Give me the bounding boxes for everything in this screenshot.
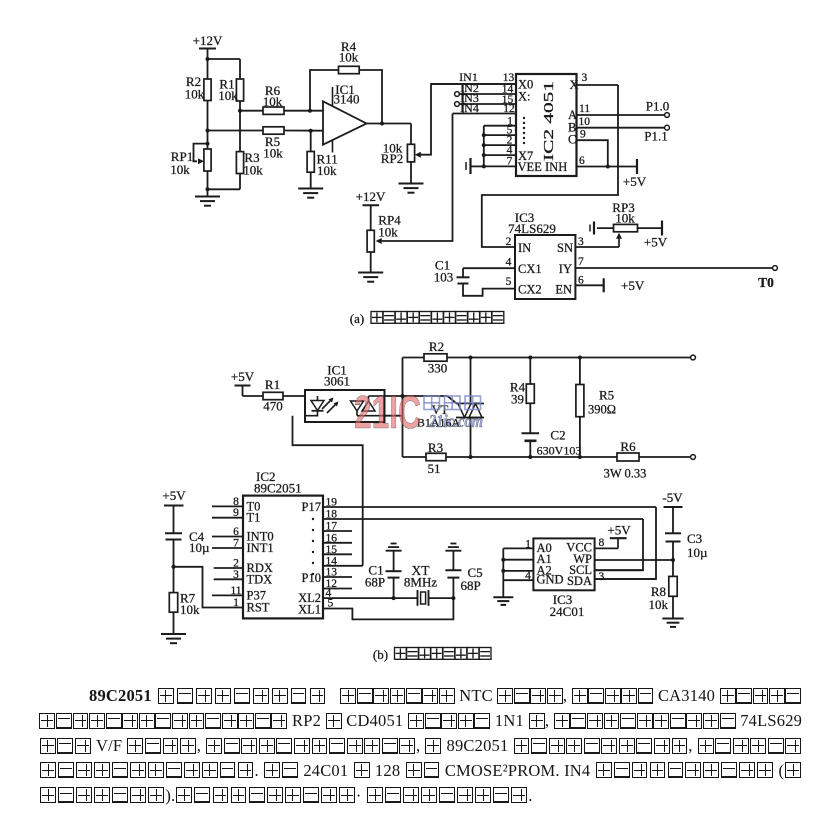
svg-text:P1.0: P1.0 bbox=[646, 99, 669, 114]
svg-text:16: 16 bbox=[326, 532, 338, 544]
svg-text:1: 1 bbox=[525, 538, 531, 550]
svg-text:10k: 10k bbox=[185, 87, 205, 102]
svg-text:74LS629: 74LS629 bbox=[508, 221, 556, 236]
svg-text:TDX: TDX bbox=[247, 572, 273, 586]
svg-text:VEE: VEE bbox=[518, 160, 543, 174]
svg-text:3W 0.33: 3W 0.33 bbox=[604, 467, 647, 481]
svg-text:11: 11 bbox=[579, 103, 590, 115]
svg-text:68P: 68P bbox=[365, 575, 385, 590]
svg-text:INT1: INT1 bbox=[247, 541, 274, 555]
svg-text:+5V: +5V bbox=[231, 369, 255, 384]
svg-text:C: C bbox=[568, 133, 576, 147]
svg-text:CX2: CX2 bbox=[518, 283, 542, 297]
svg-text:SDA: SDA bbox=[567, 574, 592, 588]
svg-text:7: 7 bbox=[507, 156, 513, 168]
svg-text:2: 2 bbox=[506, 236, 512, 248]
svg-text:3061: 3061 bbox=[324, 374, 350, 389]
svg-text:103: 103 bbox=[434, 270, 454, 285]
svg-text:24C01: 24C01 bbox=[550, 604, 585, 619]
svg-text:17: 17 bbox=[326, 521, 338, 533]
svg-text:RP2: RP2 bbox=[381, 151, 403, 166]
svg-text:GND: GND bbox=[537, 573, 564, 587]
svg-text:3140: 3140 bbox=[334, 92, 360, 107]
svg-text:10: 10 bbox=[579, 116, 591, 128]
svg-text:10µ: 10µ bbox=[687, 545, 708, 560]
svg-text:R2: R2 bbox=[429, 339, 444, 354]
svg-text:3: 3 bbox=[582, 72, 588, 84]
svg-text:3: 3 bbox=[599, 571, 605, 583]
svg-text:IY: IY bbox=[559, 262, 572, 276]
svg-text:15: 15 bbox=[326, 544, 338, 556]
svg-text:X:: X: bbox=[518, 90, 531, 104]
svg-text:8MHz: 8MHz bbox=[404, 575, 437, 590]
svg-text:10k: 10k bbox=[218, 88, 238, 103]
svg-text:P17: P17 bbox=[302, 500, 321, 514]
svg-text:+5V: +5V bbox=[607, 523, 631, 538]
svg-text:XL1: XL1 bbox=[298, 603, 321, 617]
svg-text:R3: R3 bbox=[428, 440, 443, 455]
svg-text:R1: R1 bbox=[265, 377, 280, 392]
svg-text:8: 8 bbox=[233, 496, 239, 508]
svg-text:EN: EN bbox=[555, 283, 572, 297]
svg-text:68P: 68P bbox=[461, 578, 481, 593]
svg-text:7: 7 bbox=[233, 538, 239, 550]
svg-text:11: 11 bbox=[230, 585, 241, 597]
svg-text:470: 470 bbox=[263, 399, 283, 414]
svg-text:IN: IN bbox=[518, 241, 531, 255]
svg-text:10k: 10k bbox=[243, 163, 263, 178]
svg-text:89C2051: 89C2051 bbox=[254, 481, 302, 496]
svg-text:4: 4 bbox=[506, 257, 512, 269]
svg-text:T1: T1 bbox=[247, 511, 261, 525]
svg-text:10µ: 10µ bbox=[189, 540, 210, 555]
svg-text:+5V: +5V bbox=[623, 174, 647, 189]
svg-text:+5V: +5V bbox=[644, 235, 668, 250]
svg-text:R5: R5 bbox=[599, 388, 614, 403]
svg-text:6: 6 bbox=[233, 526, 239, 538]
svg-text:5: 5 bbox=[328, 598, 334, 610]
svg-text:IN4: IN4 bbox=[460, 101, 479, 115]
svg-text:R6: R6 bbox=[620, 439, 636, 454]
svg-text:P1.1: P1.1 bbox=[644, 129, 667, 144]
svg-text:390Ω: 390Ω bbox=[588, 403, 616, 417]
svg-text:10k: 10k bbox=[170, 162, 190, 177]
svg-text:2: 2 bbox=[233, 558, 239, 570]
svg-text:+12V: +12V bbox=[193, 33, 223, 48]
svg-text:RST: RST bbox=[247, 601, 270, 615]
svg-text:51: 51 bbox=[428, 461, 441, 476]
svg-text:9: 9 bbox=[233, 507, 239, 519]
svg-text:10k: 10k bbox=[649, 597, 669, 612]
svg-text:7: 7 bbox=[578, 256, 584, 268]
svg-text:P10: P10 bbox=[302, 571, 321, 585]
svg-text:19: 19 bbox=[326, 497, 338, 509]
svg-text:T0: T0 bbox=[758, 275, 774, 290]
svg-text:10k: 10k bbox=[263, 146, 283, 161]
svg-text:10k: 10k bbox=[263, 94, 283, 109]
svg-text:21ic.com: 21ic.com bbox=[428, 411, 483, 431]
svg-text:5: 5 bbox=[506, 276, 512, 288]
svg-text:18: 18 bbox=[326, 509, 338, 521]
svg-text:+5V: +5V bbox=[621, 278, 645, 293]
svg-text:9: 9 bbox=[580, 129, 586, 141]
svg-text:13: 13 bbox=[326, 567, 338, 579]
svg-text:630V103: 630V103 bbox=[537, 444, 582, 458]
svg-text:21IC: 21IC bbox=[354, 386, 421, 438]
svg-text:C2: C2 bbox=[550, 428, 565, 443]
svg-text:X: X bbox=[570, 78, 579, 92]
svg-text:(a): (a) bbox=[350, 311, 364, 326]
svg-text:-5V: -5V bbox=[662, 490, 683, 505]
svg-text:C3: C3 bbox=[687, 531, 702, 546]
svg-text:IC2 4051: IC2 4051 bbox=[541, 81, 556, 161]
svg-text:+5V: +5V bbox=[162, 488, 186, 503]
svg-text:10k: 10k bbox=[378, 225, 398, 240]
svg-text:12: 12 bbox=[503, 103, 515, 115]
svg-text:13: 13 bbox=[503, 72, 515, 84]
svg-text:INH: INH bbox=[545, 160, 567, 174]
svg-text:4: 4 bbox=[525, 570, 531, 582]
svg-text:10k: 10k bbox=[180, 602, 200, 617]
svg-text:39: 39 bbox=[511, 392, 524, 407]
svg-text:SN: SN bbox=[557, 241, 573, 255]
svg-text:(b): (b) bbox=[373, 647, 388, 662]
svg-text:3: 3 bbox=[233, 569, 239, 581]
svg-text:+12V: +12V bbox=[356, 189, 386, 204]
svg-text:CX1: CX1 bbox=[518, 262, 542, 276]
svg-text:14: 14 bbox=[326, 555, 338, 567]
svg-text:10k: 10k bbox=[615, 211, 635, 226]
svg-text:6: 6 bbox=[579, 155, 585, 167]
svg-text:8: 8 bbox=[599, 537, 605, 549]
svg-text:330: 330 bbox=[428, 361, 448, 376]
svg-text:10k: 10k bbox=[339, 50, 359, 65]
svg-text:10k: 10k bbox=[317, 163, 337, 178]
